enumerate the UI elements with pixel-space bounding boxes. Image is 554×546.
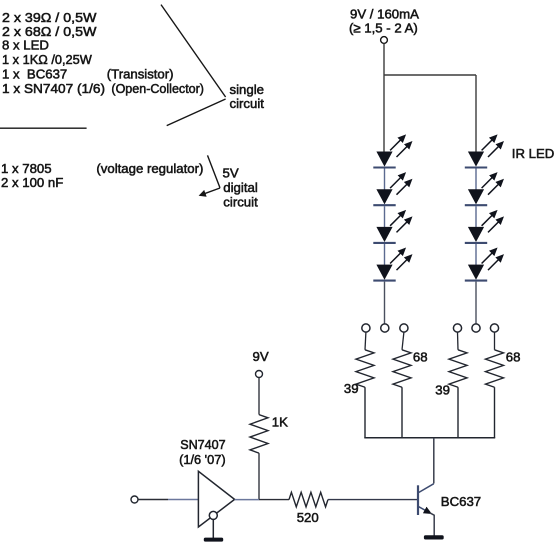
resistor R5 1K — [250, 415, 268, 454]
LED D2 — [373, 174, 410, 205]
svg-text:9V: 9V — [253, 349, 269, 364]
wire: node to R6 — [259, 499, 289, 501]
svg-text:circuit: circuit — [230, 96, 265, 111]
svg-text:1 x SN7407 (1/6): 1 x SN7407 (1/6) — [2, 81, 105, 96]
svg-text:2 x 100 nF: 2 x 100 nF — [1, 175, 63, 190]
wire: LED chain segment — [475, 169, 477, 190]
svg-text:single: single — [230, 82, 264, 97]
separator line under parts list — [0, 127, 87, 129]
wire: U1 to ground — [212, 519, 214, 538]
open-collector indicator circle on U1 — [209, 511, 217, 519]
brace leg: 5V digital circuit — [208, 155, 221, 188]
svg-text:BC637: BC637 — [441, 494, 481, 509]
wire: rail to collector — [433, 438, 435, 484]
ground: Q1 emitter — [424, 535, 444, 539]
svg-text:(1/6 '07): (1/6 '07) — [179, 452, 226, 467]
terminal: jumper post P6 — [490, 324, 498, 332]
wire: LED chain segment — [475, 244, 477, 265]
LED D7 — [465, 212, 502, 243]
svg-text:5V: 5V — [223, 166, 239, 181]
svg-text:(≥ 1,5 - 2 A): (≥ 1,5 - 2 A) — [349, 21, 418, 36]
wire: LED chain segment — [384, 206, 386, 227]
resistor R4 68 — [486, 350, 504, 387]
wire: jumper post to resistor — [494, 332, 496, 350]
svg-text:1 x 7805: 1 x 7805 — [1, 161, 52, 176]
brace lower leg: single circuit — [167, 99, 226, 126]
resistor R2 68 — [393, 350, 411, 387]
ground: U1 — [204, 538, 223, 542]
terminal: 9V supply — [381, 37, 388, 44]
svg-text:IR LED: IR LED — [512, 146, 554, 161]
LED D3 — [373, 212, 410, 243]
wire: emitter to ground — [430, 513, 434, 537]
svg-text:SN7407: SN7407 — [180, 437, 225, 452]
LED D6 — [465, 174, 502, 205]
wire: supply down to split — [383, 43, 385, 75]
wire: LED chain segment — [384, 169, 386, 190]
transistor Q1 emitter lead with arrow — [419, 507, 430, 513]
wire: jumper post to resistor — [402, 332, 404, 350]
LED D4 — [373, 249, 410, 280]
wire: input to gate — [138, 499, 168, 501]
svg-text:39: 39 — [344, 381, 359, 396]
terminal: jumper post P5 — [472, 324, 480, 332]
terminal: jumper post P3 — [400, 324, 408, 332]
svg-text:circuit: circuit — [223, 195, 258, 210]
wire: left chain top — [383, 75, 385, 152]
wire: jumper post to resistor — [364, 332, 367, 350]
wire: resistor common rail — [364, 437, 495, 439]
transistor Q1 BC637 base bar — [417, 485, 419, 515]
svg-text:520: 520 — [297, 510, 319, 525]
terminal: gate input — [131, 496, 138, 503]
resistor R6 520 — [289, 492, 328, 507]
wire: jumper post to resistor — [457, 332, 460, 350]
wire: U1 output to node — [235, 499, 259, 501]
svg-text:(Open-Collector): (Open-Collector) — [111, 81, 204, 96]
wire: LED chain segment — [475, 206, 477, 227]
wire: chain bottom to jumper post — [475, 282, 477, 325]
LED D1 — [373, 136, 410, 167]
svg-text:(voltage regulator): (voltage regulator) — [96, 161, 203, 176]
svg-text:68: 68 — [413, 350, 428, 365]
wire: right chain top — [475, 75, 477, 153]
resistor R1 39 — [356, 350, 374, 387]
terminal: jumper post P2 — [381, 324, 389, 332]
wire: split horizontal — [384, 74, 476, 76]
resistor R3 39 — [449, 350, 467, 387]
svg-text:8 x LED: 8 x LED — [2, 38, 49, 53]
svg-text:9V / 160mA: 9V / 160mA — [350, 6, 419, 21]
LED D8 — [465, 249, 502, 280]
op-amp/buffer U1 SN7407 gate triangle — [198, 471, 234, 527]
svg-text:1 x 1KΩ /0,25W: 1 x 1KΩ /0,25W — [2, 52, 92, 67]
terminal: jumper post P1 — [362, 324, 370, 332]
wire: chain bottom to jumper post — [384, 282, 386, 325]
svg-text:68: 68 — [506, 350, 521, 365]
LED D5 — [465, 136, 502, 167]
svg-text:1 x BC637: 1 x BC637 — [2, 67, 67, 82]
svg-text:(Transistor): (Transistor) — [107, 67, 174, 82]
svg-text:1K: 1K — [272, 415, 288, 430]
wire: 9V terminal to R5 — [258, 378, 260, 415]
terminal: 9V base supply — [256, 371, 263, 378]
wire: LED chain segment — [384, 244, 386, 265]
arrow leg: 5V digital circuit — [200, 188, 220, 195]
svg-text:digital: digital — [223, 180, 258, 195]
transistor Q1 collector lead — [419, 484, 434, 493]
svg-text:39: 39 — [435, 383, 450, 398]
terminal: jumper post P4 — [453, 324, 461, 332]
wire: R5 down to output node — [258, 453, 260, 500]
wire: R6 to Q1 base — [328, 499, 417, 501]
brace upper leg: single circuit — [161, 5, 226, 97]
